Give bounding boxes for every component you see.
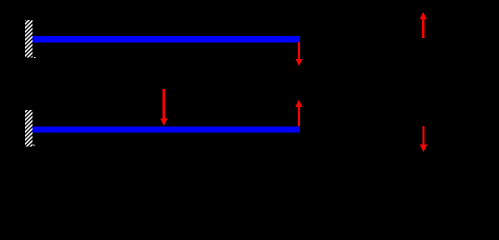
force arrow F5 (down, right figure bottom) — [420, 126, 427, 152]
force arrow F1 (down, at tip of beam 1) — [295, 42, 302, 66]
fixed support wall W1 (hatched) — [25, 20, 33, 57]
hatch tail dot of wall W1 — [34, 57, 35, 58]
force arrow F3 (up, at tip of beam 2) — [295, 100, 302, 126]
beam 1 (cantilever, blue) — [33, 36, 301, 42]
beam 2 (cantilever, blue) — [33, 126, 301, 132]
hatch tail dot of wall W2 — [33, 145, 34, 146]
force arrow F2 (down, mid-span of beam 2) — [160, 89, 167, 126]
force arrow F4 (up, right figure top) — [420, 12, 427, 38]
fixed support wall W2 (hatched) — [25, 110, 33, 146]
